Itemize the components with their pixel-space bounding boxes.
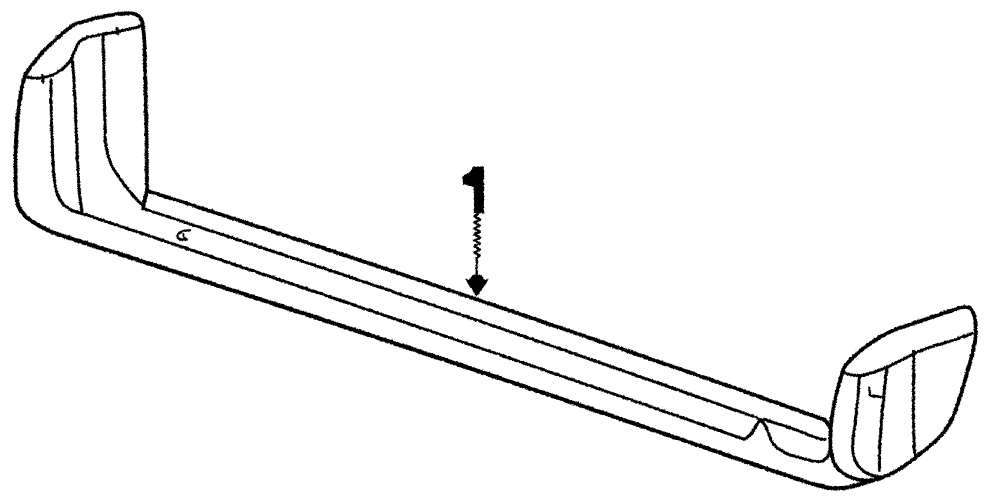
left bracket contour line L2 [72, 61, 81, 211]
arrowhead [464, 275, 488, 296]
crease tick right [115, 28, 118, 35]
left bracket top band outer edge and right edge [25, 13, 146, 208]
leader zigzag below label [474, 214, 480, 258]
crease tick left [41, 75, 44, 83]
rail bottom edge (line 4) [57, 234, 873, 488]
right bracket contour line B [879, 367, 887, 471]
right bracket silhouette: left edge, bottom bend, bottom edge, right edge, top band outer edge [830, 307, 975, 480]
stamp squiggle mark on rail web [177, 230, 189, 240]
leader shaft [475, 258, 477, 281]
rail upper crease (line 2) with jog down near right end [142, 208, 829, 461]
left bracket outer left edge and bottom-left bend [15, 74, 57, 234]
rail lower crease (line 3) with jog up near right end [81, 213, 825, 439]
left bracket contour line L3 [103, 35, 141, 204]
left bracket contour line L1 [50, 80, 81, 213]
part number label 1 [462, 166, 484, 213]
right bracket top band inner edge [844, 333, 972, 375]
right bracket contour line C [913, 351, 915, 458]
left bracket top band inner edge [26, 25, 140, 77]
rail top edge (line 1) into right upturn [146, 190, 830, 430]
small hook detail on right bracket [869, 388, 882, 397]
right bracket inner bend contour [852, 377, 882, 477]
